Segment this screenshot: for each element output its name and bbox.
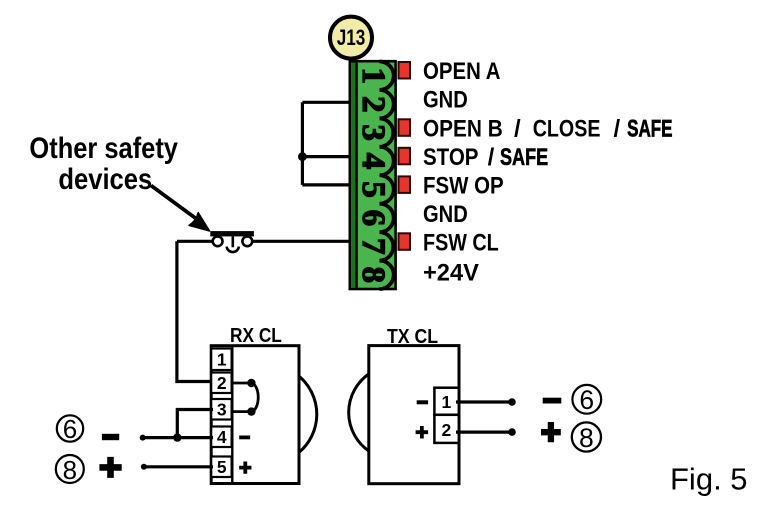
wire from RX terminal 3 down to minus wire xyxy=(177,410,213,438)
circled 6 left xyxy=(57,414,83,444)
svg-text:OPEN A: OPEN A xyxy=(423,58,500,85)
svg-text:+24V: +24V xyxy=(423,259,479,286)
terminal block scallop arcs xyxy=(380,62,394,290)
red tab terminal 3 xyxy=(399,119,411,136)
circled 8 left xyxy=(56,455,84,485)
svg-text:/: / xyxy=(614,116,621,143)
TX terminal 1 xyxy=(434,388,458,415)
plus wire to RX terminal 5 xyxy=(144,465,213,468)
svg-text:Fig. 5: Fig. 5 xyxy=(670,462,748,497)
svg-text:RX CL: RX CL xyxy=(230,324,282,346)
TX wire 2 end dot xyxy=(508,428,516,436)
svg-text:/: / xyxy=(514,116,521,143)
svg-text:2: 2 xyxy=(442,420,452,440)
minus sign right xyxy=(543,398,562,404)
plus wire end dot xyxy=(141,464,147,470)
wire from terminal 5 to vertical bus xyxy=(302,183,353,186)
svg-text:2: 2 xyxy=(217,373,227,393)
wire vertical bus left of J13 block xyxy=(301,102,304,185)
wire from terminal 2 to left vertical bus xyxy=(302,101,353,104)
svg-text:/: / xyxy=(488,144,495,171)
red tab terminal 5 xyxy=(399,176,411,193)
svg-text:GND: GND xyxy=(423,86,468,113)
RX CL inner vertical line xyxy=(231,346,233,484)
red tab terminal 7 xyxy=(399,233,411,250)
connector label J13 xyxy=(330,17,372,59)
svg-text:1: 1 xyxy=(442,392,452,412)
RX minus mark xyxy=(239,436,250,440)
svg-text:5: 5 xyxy=(217,457,227,477)
TX wire terminal 1 xyxy=(456,400,512,403)
svg-text:8: 8 xyxy=(355,267,391,284)
RX CL lens arc xyxy=(299,376,317,452)
svg-text:2: 2 xyxy=(355,96,391,113)
RX terminal 3 xyxy=(211,399,231,420)
safety contact right circle xyxy=(242,236,252,246)
svg-text:SAFE: SAFE xyxy=(627,116,673,143)
TX terminal 2 xyxy=(434,415,458,443)
svg-text:Other safety: Other safety xyxy=(29,131,178,164)
RX terminal 1 xyxy=(211,349,231,371)
svg-text:SAFE: SAFE xyxy=(500,144,548,171)
TX plus mark xyxy=(416,426,429,439)
TX wire terminal 2 xyxy=(456,431,512,434)
svg-text:6: 6 xyxy=(579,385,594,415)
junction dot on minus wire xyxy=(173,433,181,441)
wire long vertical down to RX CL terminal 2 xyxy=(177,241,213,381)
TX wire 1 end dot xyxy=(508,398,516,406)
svg-text:8: 8 xyxy=(63,455,77,485)
terminal block J13 body xyxy=(350,61,396,289)
junction dot on terminal 4 wire xyxy=(298,152,307,161)
wire from terminal 7 to safety contact xyxy=(252,240,353,243)
arrow from label to safety contact xyxy=(151,186,210,232)
svg-text:FSW OP: FSW OP xyxy=(423,172,504,199)
svg-text:devices: devices xyxy=(58,162,152,195)
svg-text:3: 3 xyxy=(217,400,227,420)
TX minus mark xyxy=(417,400,428,404)
TX CL lens arc xyxy=(349,374,369,451)
red tab terminal 4 xyxy=(399,148,411,165)
svg-text:TX CL: TX CL xyxy=(387,326,438,348)
svg-text:GND: GND xyxy=(423,201,468,228)
wire from terminal 4 to vertical bus xyxy=(302,155,353,158)
safety contact plunger xyxy=(232,236,235,247)
svg-text:8: 8 xyxy=(579,423,594,453)
circled 6 right xyxy=(572,385,601,415)
RX terminal 5 xyxy=(211,457,231,478)
RX terminal 4 xyxy=(211,427,231,448)
svg-text:STOP: STOP xyxy=(423,144,479,171)
minus wire end dot xyxy=(140,435,146,441)
label STOP / SAFE xyxy=(423,144,548,171)
plus sign left xyxy=(99,457,121,478)
svg-text:3: 3 xyxy=(355,124,391,141)
svg-text:4: 4 xyxy=(217,427,227,447)
minus wire to RX terminal 4 xyxy=(143,436,213,439)
svg-text:FSW CL: FSW CL xyxy=(423,229,499,256)
label OPEN B / CLOSE / SAFE xyxy=(423,115,673,143)
wire from safety contact left to corner xyxy=(177,240,213,243)
svg-text:4: 4 xyxy=(355,153,391,170)
safety contact left circle xyxy=(213,236,223,246)
terminal block inner divider line xyxy=(356,63,358,288)
label Other safety devices xyxy=(29,131,178,196)
RX plus mark xyxy=(239,462,251,474)
svg-text:5: 5 xyxy=(355,181,391,198)
RX terminal 2 xyxy=(211,373,231,394)
safety contact spring arc xyxy=(227,247,239,252)
svg-text:CLOSE: CLOSE xyxy=(533,115,601,142)
svg-text:J13: J13 xyxy=(337,26,366,51)
svg-text:OPEN B: OPEN B xyxy=(423,115,503,142)
safety contact switch bar xyxy=(210,231,254,236)
RX jumper terminal 2 to 3 xyxy=(233,379,258,416)
red tab terminal 1 xyxy=(399,62,411,79)
terminal block dark green strip xyxy=(351,63,355,288)
svg-text:6: 6 xyxy=(63,414,77,444)
svg-text:6: 6 xyxy=(355,210,391,227)
svg-text:1: 1 xyxy=(217,350,227,370)
svg-text:7: 7 xyxy=(355,238,391,255)
RX CL photocell box xyxy=(211,346,299,484)
minus sign left xyxy=(102,434,119,440)
TX CL photocell box xyxy=(369,346,459,484)
svg-text:1: 1 xyxy=(355,67,391,84)
plus sign right xyxy=(541,422,561,442)
circled 8 right xyxy=(572,422,601,453)
